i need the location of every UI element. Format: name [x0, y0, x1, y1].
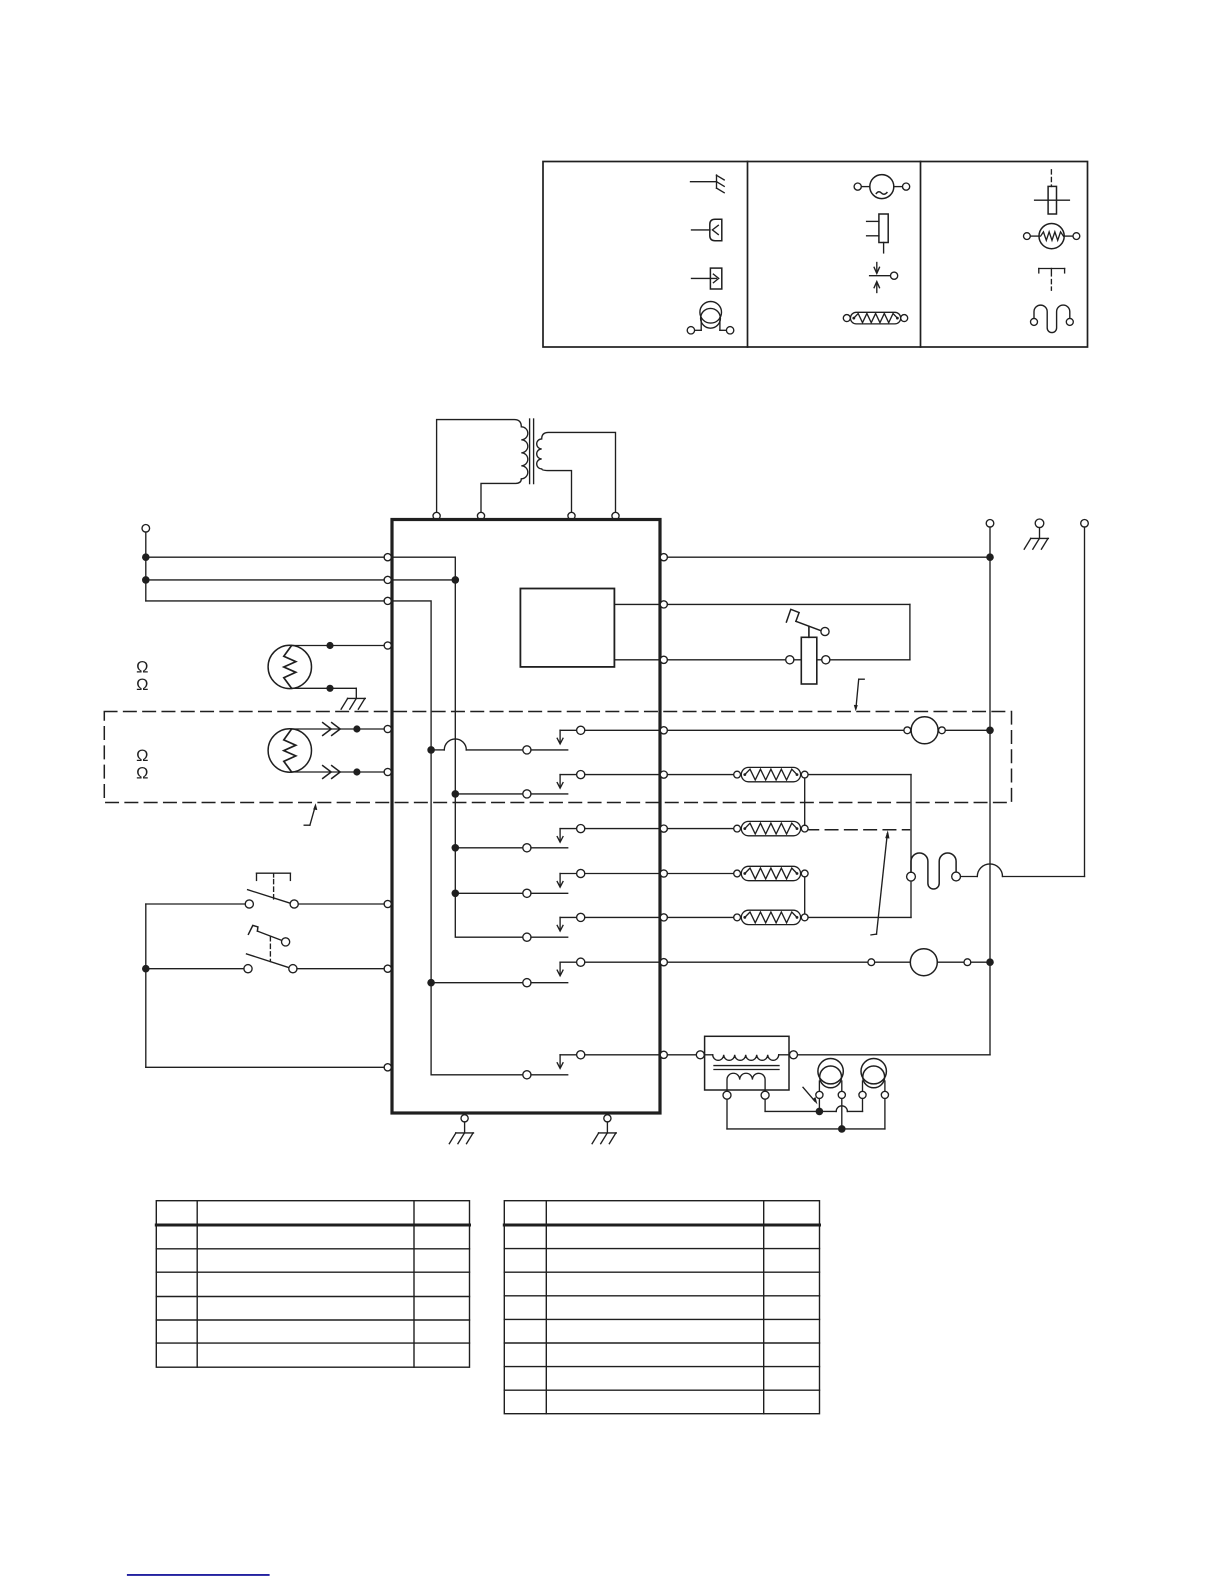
node: M1 rail junction	[986, 727, 994, 735]
footer link line	[127, 1574, 270, 1576]
parts table left	[156, 1201, 469, 1368]
wire: SW1 right to board	[298, 903, 384, 905]
relay contact K6 (fan motor)	[431, 958, 658, 987]
svg-text:Ω: Ω	[136, 765, 148, 783]
wire: H3-H4 pair link	[804, 877, 806, 914]
wire: driver block to right edge pin row 3	[614, 659, 658, 661]
node: bus A junction K4	[452, 890, 460, 898]
leader arrow to pump junction	[803, 1087, 817, 1104]
transformer T2 core	[714, 1066, 779, 1070]
thermal cutout TCO lever	[786, 609, 829, 637]
wire: T2 secondary right down	[764, 1099, 766, 1111]
legend: thermistor symbol	[1024, 224, 1080, 249]
heater H3	[667, 866, 808, 880]
wire: H1-H2 pair link	[804, 778, 806, 825]
svg-text:Ω: Ω	[136, 659, 148, 677]
legend: heater wire symbol	[1031, 305, 1074, 333]
svg-text:Ω: Ω	[136, 676, 148, 694]
relay contact K3 (heater 2)	[455, 825, 658, 852]
node: TH1 bottom lead connector junction	[326, 685, 333, 692]
wire: board to transformer T2	[667, 1054, 696, 1056]
wire: pump bottom bus	[727, 1099, 885, 1129]
wire: T2 secondary left down	[726, 1099, 728, 1129]
door switch SW2 monitor actuator	[248, 925, 289, 961]
terminal: neutral rail top	[986, 520, 994, 528]
mains input terminal	[142, 525, 150, 558]
leader arrow to dashed enclosure top	[854, 679, 864, 711]
node: SW2 junction	[142, 965, 150, 973]
transformer T2 box	[705, 1036, 789, 1090]
parts table right	[504, 1201, 819, 1414]
control board PCB outline	[392, 520, 660, 1114]
svg-text:Ω: Ω	[136, 747, 148, 765]
node: bus B junction K6	[427, 979, 435, 987]
wire: input row 3 to board	[146, 557, 384, 601]
transformer T2 right terminal	[790, 1051, 798, 1059]
door switch SW1	[245, 890, 298, 908]
wire: H4 to heater bank rail	[808, 916, 911, 918]
transformer T2 secondary terminals	[723, 1091, 769, 1099]
transformer T2 secondary winding	[727, 1073, 765, 1091]
wire: cutout loop bottom right	[830, 659, 910, 661]
node: TH1 top lead connector junction	[326, 642, 333, 649]
wire: row2 to bus A	[391, 579, 455, 581]
wire: heater bank rail	[910, 775, 912, 918]
leader arrow to dashed enclosure bottom	[304, 803, 317, 825]
wire: SW2 left to vertical	[146, 968, 244, 970]
wire: input row 1 to board	[146, 556, 384, 558]
wire: SW2 right to board	[297, 968, 384, 970]
label ohms pair 2	[136, 747, 148, 783]
legend: relay symbol	[867, 214, 889, 253]
wire: door switch common vertical	[145, 904, 147, 1067]
legend: thermal cutout contact symbol	[870, 263, 898, 293]
wire: SW1 left to vertical	[146, 903, 245, 905]
thermistor TH2	[268, 729, 311, 772]
wire: neutral rail vertical	[798, 527, 991, 1055]
door switch SW1 thermostat actuator	[257, 873, 291, 899]
earth terminal	[1024, 519, 1048, 549]
relay contact K2 (heater 1)	[455, 771, 658, 799]
transformer T1 secondary winding and leads	[537, 432, 616, 512]
dashed enclosure: remote sensor unit	[104, 712, 1011, 803]
heater H1	[667, 767, 808, 781]
dashed callout segment at heater bank	[806, 829, 910, 831]
thermistor TH1	[268, 645, 311, 688]
wire: pump mid bus with hop	[765, 1099, 862, 1112]
heater H2	[667, 821, 808, 835]
transformer T1 primary winding and leads	[437, 420, 528, 513]
legend: sheathed heater symbol	[843, 312, 907, 324]
wire: motor M1 to neutral rail	[945, 729, 990, 731]
node: rail junction top	[986, 553, 994, 561]
wire: line rail vertical	[1084, 527, 1086, 876]
ground below board right	[592, 1122, 616, 1144]
relay contact K1 (compressor)	[431, 726, 658, 754]
wire: TH1 top lead to board	[291, 645, 384, 647]
legend: fuse symbol	[1035, 170, 1070, 214]
wire: FL to line rail with hop	[961, 864, 1085, 877]
wire: cutout loop bottom left	[667, 659, 785, 661]
relay contact K4 (heater 3)	[455, 869, 658, 897]
board top terminal pins	[433, 512, 619, 519]
board bottom terminal pins	[461, 1115, 611, 1122]
terminal: line rail top	[1081, 520, 1089, 528]
transformer T2 left terminal	[696, 1051, 704, 1059]
node: mains junction row2	[142, 576, 150, 584]
legend: chassis ground symbol	[691, 175, 725, 193]
thermal cutout TCO terminals	[786, 656, 830, 664]
wire: driver block to right edge pin row 2	[614, 603, 658, 605]
wire: P1 right lead	[841, 1099, 843, 1129]
fan motor connector right	[964, 959, 971, 966]
pump P1	[816, 1059, 846, 1099]
leader arrow to heater bank dashed segment	[871, 830, 890, 935]
thermal cutout TCO body	[801, 637, 817, 684]
relay contact K5 (heater 4)	[523, 913, 659, 941]
board right edge terminal pins	[660, 554, 667, 1059]
fan motor connector left	[868, 959, 875, 966]
node: TH2 bottom lead connector junction	[353, 768, 360, 775]
legend box frame	[543, 162, 1088, 348]
label ohms pair 1	[136, 659, 148, 694]
wire: M2 to neutral rail	[971, 961, 990, 963]
wire: H1 to heater bank rail	[808, 774, 911, 776]
wire: internal bus B from row3	[391, 601, 522, 1075]
node: bus A junction K3	[452, 844, 460, 852]
node: mains junction row1	[142, 553, 150, 561]
pump P2	[859, 1059, 889, 1099]
node: M2 rail junction	[986, 958, 994, 966]
wire: board to neutral rail top	[667, 556, 990, 558]
node: P1 left junction	[816, 1108, 824, 1116]
door switch SW2	[244, 954, 297, 973]
node: bus B junction K1	[427, 746, 435, 754]
relay contact K7 (pump transformer)	[523, 1051, 659, 1079]
heater H4	[667, 910, 808, 924]
transformer T1 core	[530, 419, 534, 484]
compressor motor M1	[904, 717, 945, 744]
wire: TH2 top lead to board	[291, 723, 384, 736]
board left edge terminal pins	[384, 554, 391, 1071]
ground at TH1	[341, 698, 365, 709]
legend: plug connector symbol	[692, 268, 722, 289]
relay driver block inside board	[520, 589, 614, 667]
wire: board to fan motor	[667, 961, 867, 963]
transformer T2 primary winding	[704, 1055, 789, 1061]
node: TH2 top lead connector junction	[353, 725, 360, 732]
wire: TH1 bottom lead to ground	[291, 688, 356, 698]
node: P1 right junction	[838, 1125, 846, 1133]
ground below board left	[449, 1122, 473, 1144]
wire: TH2 bottom lead to board	[291, 766, 384, 779]
legend: receptacle connector symbol	[692, 219, 722, 241]
wire: input row 2 to board	[146, 579, 384, 581]
fusible heater link FL	[907, 853, 961, 889]
wire: internal bus A from row1	[391, 557, 522, 937]
fan motor M2	[875, 949, 964, 976]
legend: thermostat symbol	[1039, 269, 1065, 291]
wire: common return to board	[146, 1066, 384, 1068]
wire: cutout loop top	[667, 604, 910, 659]
node: bus A junction K2	[452, 790, 460, 798]
node: bus A row2 junction	[452, 576, 460, 584]
legend: pump motor symbol	[687, 302, 734, 334]
wire: board to compressor motor	[667, 729, 904, 731]
legend: AC motor symbol	[854, 175, 910, 199]
wire: P1 left lead	[818, 1099, 820, 1112]
